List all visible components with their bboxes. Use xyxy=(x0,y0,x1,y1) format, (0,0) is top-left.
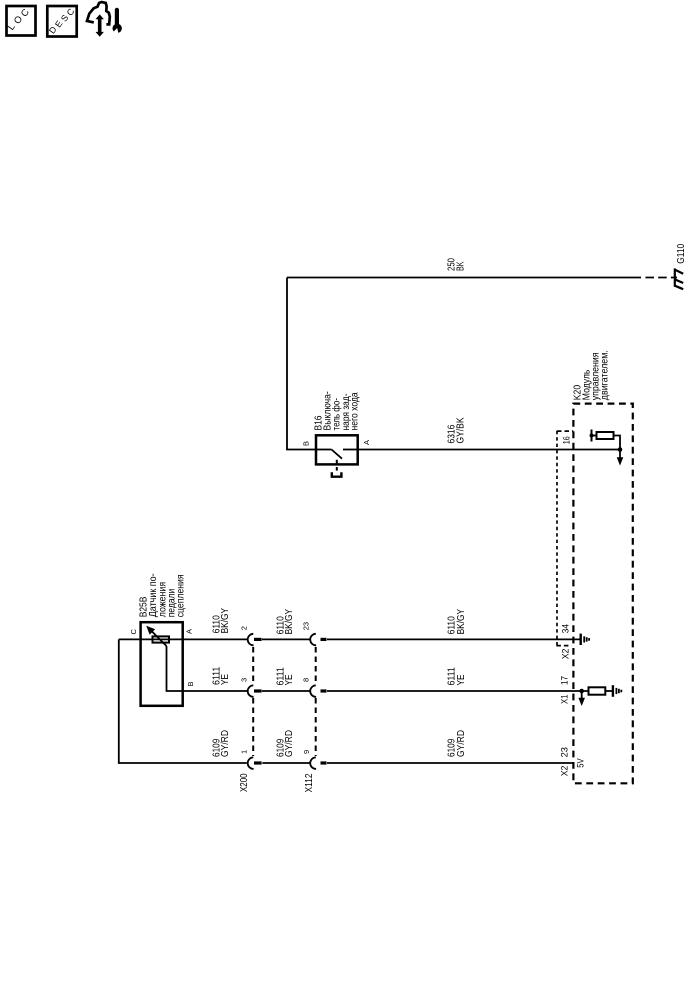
wire 6109 GY/RD long run to K20 pin 23 xyxy=(327,762,574,764)
wire 250 BK dashed section to G110 xyxy=(646,277,678,279)
svg-text:2: 2 xyxy=(239,626,248,630)
ground G110 xyxy=(675,268,683,289)
svg-text:YE: YE xyxy=(456,674,467,685)
arrow down (signal into module) xyxy=(617,457,624,465)
svg-text:C: C xyxy=(129,629,138,635)
label 6110 BK/GY (long run) xyxy=(447,609,467,635)
svg-text:YE: YE xyxy=(284,674,295,685)
switch actuator dashed link xyxy=(332,460,342,477)
wire 6110 BK/GY long run to K20 pin 34 xyxy=(327,638,581,640)
svg-text:BK: BK xyxy=(456,261,467,271)
label 6109 GY/RD (between connectors) xyxy=(276,730,296,757)
wire pin C down and right (6109 start) xyxy=(119,639,247,763)
label 6111 YE (long run) xyxy=(447,667,467,686)
svg-text:BK/GY: BK/GY xyxy=(284,609,295,635)
wire 6316 GY/BK from B16 pin A to K20 pin 16 xyxy=(358,449,620,451)
B25B name label xyxy=(139,573,187,617)
svg-text:GY/RD: GY/RD xyxy=(220,730,231,757)
X200 dashed connector line xyxy=(252,647,254,756)
svg-text:X112: X112 xyxy=(304,773,315,792)
wire 6111 YE from B25B pin B xyxy=(183,690,248,692)
resistor to internal ground lead xyxy=(605,690,613,692)
label 6109 GY/RD (long run) xyxy=(447,730,467,757)
internal ground (pin 17) xyxy=(613,685,621,697)
K20 name label xyxy=(573,350,611,400)
svg-text:A: A xyxy=(185,629,194,634)
svg-text:X2: X2 xyxy=(559,766,569,777)
connector X112 pin 8 xyxy=(310,685,326,697)
label 6316 GY/BK xyxy=(446,417,466,443)
label 6110 BK/GY (between connectors) xyxy=(276,609,296,635)
service icon: car outline with up-down arrow and wrench xyxy=(87,2,122,37)
DESC icon box xyxy=(47,6,77,37)
wire 6110 between connectors xyxy=(262,638,310,640)
label 250 BK xyxy=(446,258,466,271)
svg-text:BK/GY: BK/GY xyxy=(456,609,467,635)
svg-text:B: B xyxy=(186,681,195,686)
module K20 dashed box xyxy=(573,404,632,784)
connector X200 pin 1 xyxy=(248,757,262,769)
sensor B25B box xyxy=(141,622,183,706)
resistor (pin 16 pull-up) xyxy=(597,432,614,439)
svg-text:GY/BK: GY/BK xyxy=(456,417,467,443)
svg-text:YE: YE xyxy=(220,674,231,685)
connector X112 pin 23 xyxy=(310,634,326,646)
wire from 250BK down to B16 pin B xyxy=(287,278,316,450)
wire 6111 YE long run to K20 pin 17 xyxy=(327,690,589,692)
svg-text:X2: X2 xyxy=(561,649,571,660)
resistor (pin 17 pull-down) xyxy=(589,687,606,694)
label 6109 GY/RD (left of X200) xyxy=(211,730,231,757)
LOC icon box xyxy=(6,6,36,36)
connector X200 pin 3 xyxy=(248,685,262,697)
switch B16 box xyxy=(316,435,358,464)
svg-text:G110: G110 xyxy=(676,243,687,263)
label 6111 YE (between connectors) xyxy=(276,667,296,686)
svg-text:двигателем.: двигателем. xyxy=(600,350,611,400)
wire 250 BK (horizontal run to ground) xyxy=(287,277,641,279)
connector X200 pin 2 xyxy=(248,634,262,646)
wire through B25B (pin C to pin A) xyxy=(119,638,248,640)
pin 34 dashed box bottom edge xyxy=(556,645,571,647)
wire 6109 between connectors xyxy=(262,762,309,764)
junction dot pin17 node xyxy=(579,689,584,694)
B16 name label xyxy=(313,391,360,430)
potentiometer wiper arrow xyxy=(146,626,166,646)
arrow down (signal into module, pin 17) xyxy=(578,691,585,706)
wiper to pin B wire xyxy=(167,646,183,691)
svg-text:3: 3 xyxy=(239,678,248,682)
junction dot pin16 node xyxy=(618,447,623,452)
svg-text:сцепления: сцепления xyxy=(175,574,186,617)
svg-text:BK/GY: BK/GY xyxy=(220,608,231,634)
svg-text:него хода: него хода xyxy=(350,392,361,431)
svg-text:9: 9 xyxy=(302,750,311,754)
connector X112 pin 9 xyxy=(310,757,326,769)
svg-text:B: B xyxy=(301,441,310,446)
svg-text:16: 16 xyxy=(562,436,572,444)
svg-text:8: 8 xyxy=(302,678,311,682)
wire from resistor to node xyxy=(614,436,621,458)
internal pull-up at pin 16: tick, resistor, arrow xyxy=(590,430,597,442)
svg-text:23: 23 xyxy=(559,747,569,757)
svg-text:34: 34 xyxy=(561,624,571,633)
connector X2 dashed pin line (pin 16 to pin 34) xyxy=(556,431,558,647)
label 6110 BK/GY (left of X200) xyxy=(211,608,231,634)
svg-text:17: 17 xyxy=(559,676,569,685)
potentiometer resistor body xyxy=(153,636,170,642)
svg-text:1: 1 xyxy=(239,750,248,754)
svg-text:GY/RD: GY/RD xyxy=(284,730,295,757)
switch contacts inside B16 xyxy=(316,450,358,459)
svg-text:5V: 5V xyxy=(576,758,586,767)
X112 dashed connector line xyxy=(315,647,317,756)
wire 6111 between connectors xyxy=(262,690,310,692)
internal ground (pin 34) xyxy=(581,634,589,645)
label 6111 YE (left of X200) xyxy=(211,666,231,685)
svg-text:GY/RD: GY/RD xyxy=(456,730,467,757)
svg-text:X200: X200 xyxy=(239,773,250,792)
pin 16 dashed box top edge xyxy=(557,430,573,432)
svg-text:23: 23 xyxy=(302,622,311,630)
svg-text:A: A xyxy=(362,440,371,445)
svg-text:X1: X1 xyxy=(559,695,569,705)
